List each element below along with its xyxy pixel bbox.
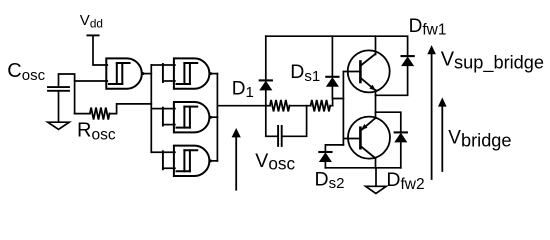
wire U4 output: [211, 160, 217, 162]
wire feed to U2: [151, 64, 163, 66]
wire R1 to R2: [290, 105, 311, 107]
wire cap loop right: [282, 106, 306, 137]
wire R2 right: [330, 105, 332, 107]
node input bus: [150, 65, 152, 152]
svg-text:Vsup_bridge: Vsup_bridge: [441, 49, 544, 74]
label Dfw1: [409, 16, 447, 39]
wire emitter down: [375, 95, 377, 112]
wire top rail Vsup: [266, 36, 408, 56]
wire RC node to gate U1 input B: [75, 80, 108, 82]
label Vbridge: [448, 128, 511, 151]
wire Rosc to feedback bus: [110, 104, 152, 114]
wire emitter to Dfw1: [376, 66, 408, 95]
label Dfw2: [386, 169, 424, 193]
svg-text:Vosc: Vosc: [255, 150, 295, 174]
transistor Q2: [348, 112, 390, 168]
svg-text:Ds1: Ds1: [290, 61, 320, 85]
wire output bus to D1 node: [217, 105, 265, 107]
wire Ds1 to base bus: [333, 99, 344, 106]
label Cosc: [7, 60, 45, 84]
wire base bus to Q1 base: [343, 71, 360, 73]
diode Dfw1: [402, 56, 414, 66]
diode Ds1: [326, 36, 338, 98]
arrow Vsup_bridge: [427, 45, 436, 179]
wire U2 output: [211, 73, 217, 75]
label Vdd: [80, 12, 103, 31]
ground: [48, 122, 70, 129]
svg-text:Rosc: Rosc: [77, 120, 116, 144]
svg-text:D1: D1: [232, 78, 254, 101]
wire feed to U4: [151, 151, 163, 153]
wire to ground: [375, 168, 377, 187]
schmitt inverter U2: [174, 58, 212, 88]
diode Dfw2: [395, 132, 407, 167]
wire feed to U3: [151, 108, 163, 110]
wire Cosc top to RC node: [59, 74, 75, 114]
wire U3 output: [211, 116, 217, 118]
arrow Vosc: [232, 128, 241, 190]
diode Ds2: [319, 152, 331, 168]
svg-text:Cosc: Cosc: [7, 60, 45, 84]
label Ds2: [315, 168, 345, 192]
label Rosc: [77, 120, 116, 144]
wire Cosc bottom: [58, 91, 60, 122]
node output bus: [216, 74, 218, 161]
capacitor Vosc: [278, 126, 282, 146]
wire input tie U2: [163, 64, 175, 82]
capacitor Cosc: [48, 87, 69, 91]
label Vosc: [255, 150, 295, 174]
svg-text:Dfw2: Dfw2: [386, 169, 424, 193]
arrow Vbridge: [438, 97, 447, 171]
wire bottom rail: [325, 167, 400, 169]
diode D1: [260, 36, 272, 106]
resistor Rosc: [90, 108, 110, 120]
wire base bus to Q2 base: [343, 138, 360, 140]
ground: [366, 186, 387, 193]
wire base bus to Ds2: [325, 145, 343, 152]
wire to Rosc: [75, 113, 90, 115]
resistor R2: [311, 100, 331, 112]
label Vsup_bridge: [441, 49, 544, 74]
wire Q1 emitter node: [375, 90, 377, 95]
wire input tie U3: [163, 108, 175, 126]
Vdd terminal: [87, 34, 98, 36]
wire input tie U4: [163, 151, 175, 169]
schmitt inverter U1: [106, 58, 144, 88]
wire cap loop left: [266, 106, 278, 137]
resistor R1: [270, 100, 290, 112]
schmitt inverter U4: [174, 146, 212, 176]
transistor Q1: [348, 36, 390, 92]
wire D1 node to R1: [266, 105, 270, 107]
svg-text:Vdd: Vdd: [80, 12, 103, 31]
node base bus: [342, 72, 344, 145]
label Ds1: [290, 61, 320, 85]
svg-text:Ds2: Ds2: [315, 168, 345, 192]
wire U1 output: [144, 73, 152, 75]
label D1: [232, 78, 254, 101]
svg-text:Vbridge: Vbridge: [448, 128, 511, 151]
schmitt inverter U3: [174, 102, 212, 132]
svg-text:Dfw1: Dfw1: [409, 16, 447, 39]
wire emitter to Dfw2: [376, 112, 401, 131]
wire Vdd to gate U1 input A: [93, 35, 107, 65]
